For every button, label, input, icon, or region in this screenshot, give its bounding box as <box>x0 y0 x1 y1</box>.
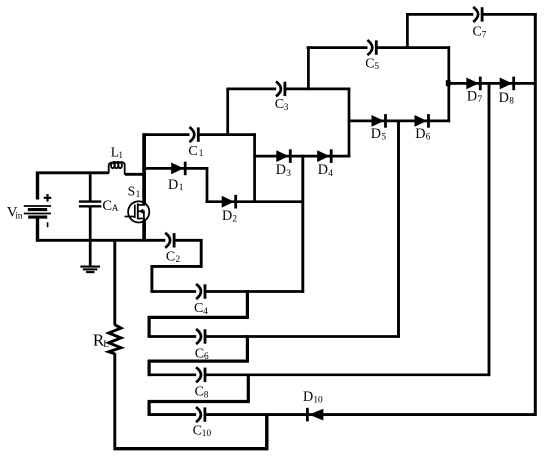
capacitor CA plates <box>79 200 101 202</box>
wire D3/D4 row <box>253 155 350 158</box>
svg-text:D: D <box>303 389 313 405</box>
diode D6 <box>415 115 428 127</box>
wire C8 row <box>148 373 490 376</box>
wire C7 row <box>406 13 536 16</box>
diode D7 <box>466 78 479 90</box>
wire C6 row <box>148 335 400 338</box>
wire D5/D6 mid to C6 vertical <box>397 120 400 338</box>
wire C3 to C1 vertical <box>226 88 229 136</box>
battery minus mark <box>47 222 49 227</box>
wire C1/D3 node vertical <box>253 133 256 203</box>
capacitor C10 <box>196 407 201 422</box>
resistor RL lead top <box>113 239 116 325</box>
wire bottom output row <box>114 447 269 450</box>
wire D1 row <box>143 167 209 170</box>
svg-text:10: 10 <box>202 429 212 439</box>
svg-text:C: C <box>473 25 482 40</box>
svg-text:C: C <box>195 346 204 361</box>
diode D3 <box>276 150 289 162</box>
capacitor CA lead top <box>89 172 92 201</box>
svg-text:3: 3 <box>284 103 289 113</box>
svg-text:10: 10 <box>313 396 323 406</box>
ground symbol <box>80 266 100 268</box>
svg-text:D: D <box>168 177 178 193</box>
wire C6 to row vertical <box>246 335 249 362</box>
battery plus mark <box>44 194 52 202</box>
svg-text:1: 1 <box>199 149 204 159</box>
wire C2 to C4 zigzag <box>152 239 201 293</box>
diode D2 <box>222 196 235 208</box>
capacitor C6 <box>196 329 201 344</box>
diode D10 <box>309 409 324 421</box>
svg-text:D: D <box>276 162 286 178</box>
capacitor C3 <box>276 81 281 96</box>
wire row y401 to C10 vertical <box>148 400 151 416</box>
wire D5/D6 row <box>348 120 450 123</box>
resistor RL zigzag <box>109 325 121 354</box>
wire C1 row <box>143 133 256 136</box>
transistor S1 (MOSFET) <box>128 201 149 222</box>
junction node dot <box>446 80 451 86</box>
wire C3 row <box>226 88 350 91</box>
wire C5 right to D6 right vertical <box>447 46 450 122</box>
svg-text:C: C <box>195 385 204 400</box>
svg-text:1: 1 <box>136 190 141 200</box>
svg-text:L: L <box>103 340 109 350</box>
MOSFET S1 gate lead <box>125 216 135 218</box>
wire top input rail <box>36 171 109 174</box>
capacitor C2 <box>165 233 170 248</box>
diode D4 <box>317 150 330 162</box>
svg-text:1: 1 <box>118 151 123 161</box>
svg-text:8: 8 <box>204 391 209 401</box>
svg-text:C: C <box>275 97 284 112</box>
wire D10 node to bottom vertical <box>265 413 268 450</box>
svg-text:C: C <box>188 144 197 159</box>
battery Vin plates <box>24 205 51 207</box>
wire L1 to switch node <box>125 173 144 176</box>
svg-text:C: C <box>365 56 374 71</box>
svg-text:S: S <box>128 183 136 198</box>
svg-text:7: 7 <box>482 30 487 40</box>
wire C4 to row vertical <box>246 290 249 319</box>
svg-text:6: 6 <box>204 352 209 362</box>
capacitor C7 <box>473 7 478 22</box>
svg-text:4: 4 <box>328 169 333 179</box>
svg-text:2: 2 <box>176 255 181 265</box>
wire row y317 to C6 vertical <box>148 316 151 338</box>
diode D5 <box>372 115 385 127</box>
wire C5 row <box>307 46 451 49</box>
capacitor C1 <box>189 127 194 142</box>
svg-text:5: 5 <box>381 133 386 143</box>
battery Vin lead top <box>36 172 39 200</box>
wire input bottom row <box>36 239 202 242</box>
wire D7/D8 row <box>448 82 537 85</box>
wire C7 to C5 vertical <box>406 13 409 49</box>
svg-text:C: C <box>166 249 175 264</box>
svg-text:D: D <box>371 126 381 142</box>
MOSFET S1 source vertical <box>142 220 146 241</box>
svg-text:A: A <box>112 204 119 214</box>
capacitor CA lead bottom <box>89 207 92 241</box>
svg-text:D: D <box>415 126 425 142</box>
capacitor C8 <box>196 367 201 382</box>
svg-text:8: 8 <box>509 96 514 106</box>
svg-text:3: 3 <box>286 169 291 179</box>
diode D8 <box>500 78 513 90</box>
svg-text:6: 6 <box>426 133 431 143</box>
svg-text:C: C <box>102 198 112 214</box>
wire row y317 <box>148 316 249 319</box>
svg-text:in: in <box>15 211 23 221</box>
wire C3 right to D3/D4 right vertical <box>348 88 351 158</box>
wire D1 to D2 vertical <box>206 167 209 203</box>
wire C8 to row vertical <box>247 374 250 403</box>
wire C4 row <box>151 290 305 293</box>
svg-text:D: D <box>499 90 509 106</box>
svg-text:4: 4 <box>203 307 208 317</box>
wire D2 row <box>206 200 305 203</box>
wire row y401 <box>148 400 250 403</box>
svg-text:1: 1 <box>179 183 184 193</box>
svg-text:5: 5 <box>374 62 379 72</box>
wire D3/D4 mid to C4 vertical <box>301 155 304 293</box>
wire C10/D10 row <box>148 413 537 416</box>
svg-text:D: D <box>318 162 328 178</box>
MOSFET S1 drain vertical <box>142 133 146 205</box>
svg-text:C: C <box>194 301 203 316</box>
wire D7/D8 mid to C8 vertical <box>488 82 491 376</box>
inductor L1 <box>109 162 125 175</box>
capacitor C5 <box>367 40 372 55</box>
svg-text:D: D <box>222 208 232 224</box>
ground stem <box>89 239 92 266</box>
wire right output rail <box>534 13 537 416</box>
svg-text:2: 2 <box>232 215 237 225</box>
resistor RL lead bottom <box>113 353 116 450</box>
svg-text:C: C <box>193 423 202 438</box>
wire row y361 <box>148 360 249 363</box>
svg-text:7: 7 <box>478 95 483 105</box>
svg-text:D: D <box>467 89 477 105</box>
capacitor C4 <box>196 284 201 299</box>
wire C5 to C3 vertical <box>307 46 310 90</box>
battery Vin lead bottom <box>36 218 39 241</box>
diode D1 <box>171 163 184 175</box>
wire row y361 to C8 vertical <box>148 360 151 376</box>
